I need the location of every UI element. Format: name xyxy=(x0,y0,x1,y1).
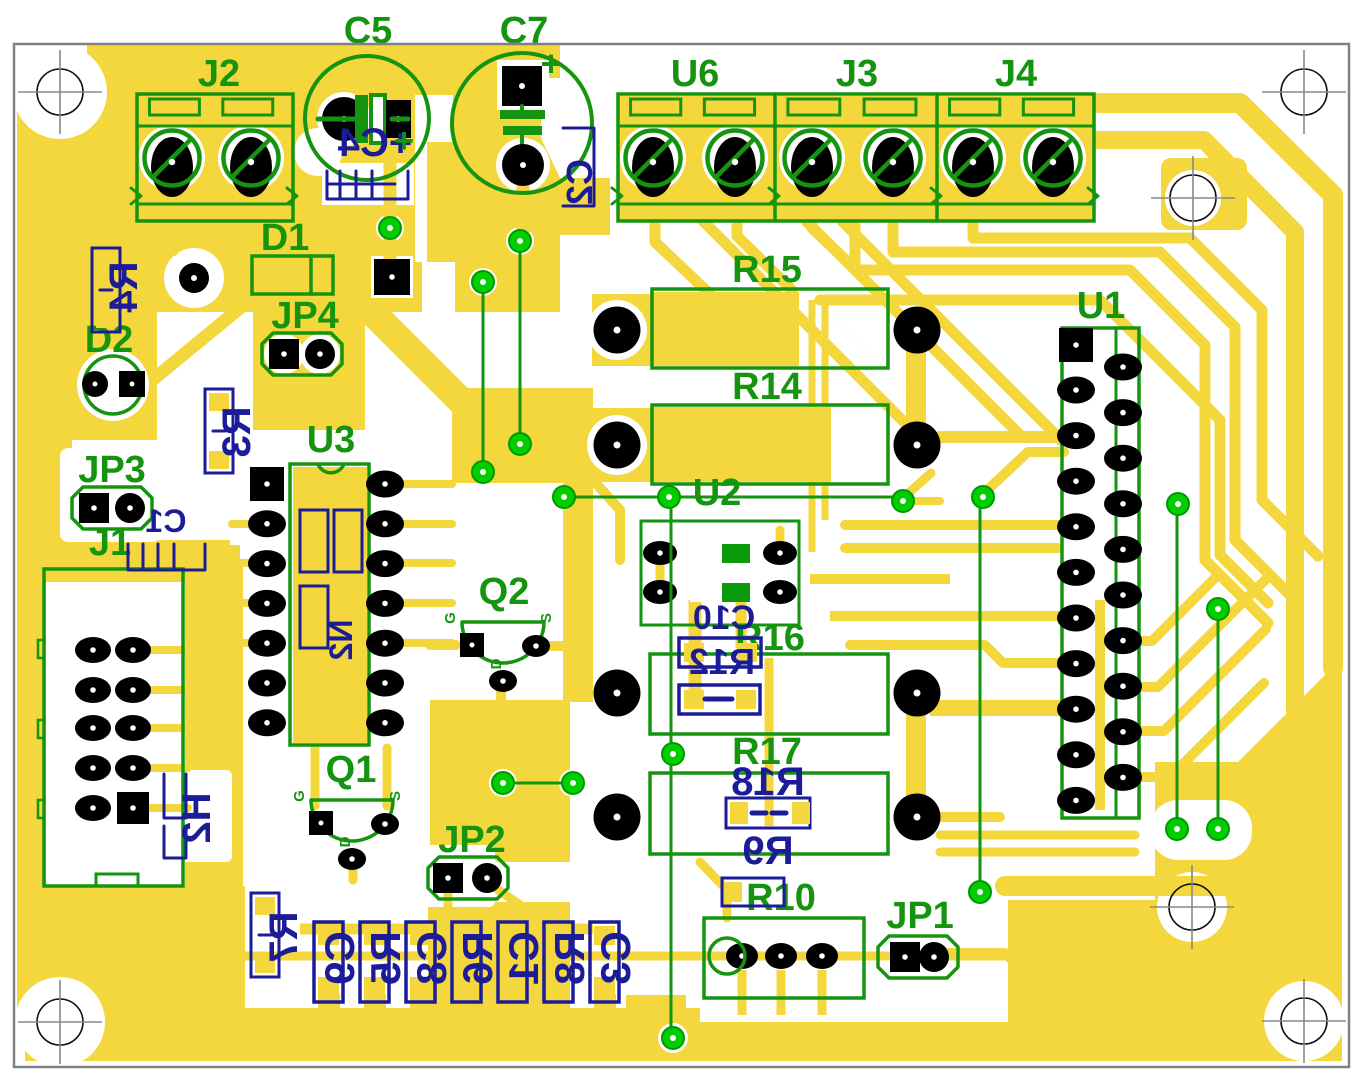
svg-text:C9: C9 xyxy=(316,931,363,985)
svg-text:C2: C2 xyxy=(559,159,600,205)
svg-text:C1: C1 xyxy=(500,931,547,985)
svg-text:R9: R9 xyxy=(742,829,793,873)
svg-text:D: D xyxy=(488,658,505,669)
svg-text:D: D xyxy=(337,836,354,847)
svg-text:J4: J4 xyxy=(995,53,1037,95)
svg-text:U1: U1 xyxy=(1077,285,1126,327)
svg-text:S: S xyxy=(538,613,555,623)
svg-text:J1: J1 xyxy=(89,522,131,564)
svg-text:C10: C10 xyxy=(693,599,755,637)
svg-text:R10: R10 xyxy=(746,877,816,919)
svg-text:U2: U2 xyxy=(693,472,742,514)
svg-text:H2: H2 xyxy=(175,792,219,843)
svg-text:JP4: JP4 xyxy=(271,295,339,337)
svg-text:C3: C3 xyxy=(592,931,639,985)
svg-text:R6: R6 xyxy=(454,931,501,985)
svg-text:U6: U6 xyxy=(671,53,720,95)
svg-text:+: + xyxy=(394,122,414,160)
svg-text:R4: R4 xyxy=(102,261,146,313)
svg-text:R18: R18 xyxy=(731,760,804,804)
svg-text:Q1: Q1 xyxy=(326,749,377,791)
svg-text:R14: R14 xyxy=(732,366,802,408)
svg-text:G: G xyxy=(442,612,459,624)
svg-text:C8: C8 xyxy=(408,931,455,985)
svg-text:R5: R5 xyxy=(362,931,409,985)
svg-text:R15: R15 xyxy=(732,249,802,291)
svg-text:JP3: JP3 xyxy=(78,449,146,491)
svg-text:R8: R8 xyxy=(546,931,593,985)
svg-text:C5: C5 xyxy=(344,10,393,52)
svg-text:D1: D1 xyxy=(261,217,310,259)
svg-text:G: G xyxy=(291,790,308,802)
svg-text:J2: J2 xyxy=(198,53,240,95)
svg-text:R3: R3 xyxy=(215,406,259,457)
svg-text:S: S xyxy=(387,791,404,801)
svg-text:R7: R7 xyxy=(262,911,306,962)
svg-text:C1: C1 xyxy=(146,503,187,539)
svg-text:JP2: JP2 xyxy=(438,819,506,861)
svg-text:J3: J3 xyxy=(836,53,878,95)
svg-text:JP1: JP1 xyxy=(886,895,954,937)
svg-text:R12: R12 xyxy=(689,641,755,682)
svg-text:C7: C7 xyxy=(500,10,549,52)
svg-text:Q2: Q2 xyxy=(479,571,530,613)
svg-text:U3: U3 xyxy=(307,419,356,461)
svg-text:N2: N2 xyxy=(323,620,359,661)
